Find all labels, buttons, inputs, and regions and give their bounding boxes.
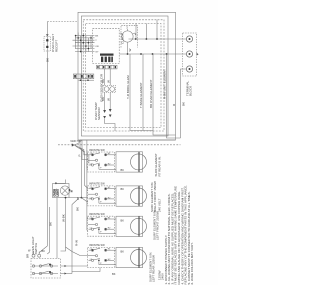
stub wires above y39 bus	[135, 24, 137, 40]
ROW 3 infinite switch SW3	[88, 216, 115, 236]
svg-text:OR: OR	[95, 46, 99, 48]
svg-text:SWITCH: SWITCH	[34, 243, 38, 255]
wire: light bottom down	[61, 198, 66, 251]
drop wire BR	[153, 54, 176, 135]
svg-text:T BAKE ELEMENT: T BAKE ELEMENT	[139, 82, 143, 108]
svg-text:W: W	[106, 80, 110, 83]
bus vertical D (row2 feed)	[74, 145, 88, 189]
row4 link wires	[114, 249, 116, 251]
svg-text:Y: Y	[95, 40, 97, 42]
ROW 2 surface element	[116, 186, 147, 206]
bus vertical C	[86, 150, 88, 230]
row2 link wires	[114, 188, 116, 190]
bus wire y54 to terminal block	[119, 53, 186, 55]
matrix junction dots	[75, 35, 92, 53]
svg-text:BR: BR	[26, 253, 30, 258]
vertical wire x72	[72, 199, 100, 272]
plug pin 1	[46, 39, 48, 41]
drop wire R-BK	[167, 54, 181, 138]
wire: sensor to box bottom	[105, 119, 115, 131]
lug 2 arrow	[197, 53, 199, 56]
wire y39 to terminal block	[129, 38, 187, 40]
bus junction dots	[127, 38, 168, 55]
wire: light box to rocker	[56, 198, 58, 259]
svg-text:R-BK UNIT ELEMENT: R-BK UNIT ELEMENT	[162, 69, 166, 99]
svg-text:BLOCK: BLOCK	[189, 86, 193, 96]
rocker contacts row 2	[34, 273, 59, 275]
wire below terminal strip	[79, 79, 95, 81]
sensor plug circles	[103, 86, 116, 93]
plug pin 2	[46, 46, 48, 48]
svg-text:INFINITE SW: INFINITE SW	[89, 243, 105, 247]
diagonal feeds rows	[87, 189, 88, 192]
svg-text:BK: BK	[95, 36, 98, 38]
svg-text:BK: BK	[121, 187, 125, 191]
svg-text:RT REAR 8 IN.: RT REAR 8 IN.	[157, 156, 161, 176]
row1 link wires	[114, 154, 116, 156]
svg-text:INFINITE SW: INFINITE SW	[89, 212, 105, 216]
terminal block lug 2	[186, 51, 192, 57]
wire from terminal block L1 down right side	[181, 69, 187, 138]
wire right side inner	[80, 139, 176, 141]
svg-text:INFINITE SW: INFINITE SW	[89, 182, 105, 186]
bus vertical A (to oven light top)	[65, 180, 67, 184]
wire: left vertical feed BK	[39, 22, 47, 254]
rocker contacts row 1	[34, 265, 59, 267]
main top dashed separator	[58, 144, 181, 146]
svg-text:BK: BK	[42, 249, 46, 253]
matrix wire labels	[95, 36, 99, 54]
ROW 1 surface element	[116, 152, 147, 172]
console outer box	[78, 12, 176, 140]
svg-text:P: P	[77, 154, 81, 156]
svg-text:BK: BK	[121, 168, 125, 172]
clock edge connector pin row	[97, 65, 118, 69]
row3 link wires	[114, 218, 116, 220]
svg-text:BR OVEN ELEMENT: BR OVEN ELEMENT	[149, 79, 153, 108]
svg-text:BK: BK	[48, 222, 52, 226]
svg-text:R-W: R-W	[75, 240, 79, 246]
row4 feed diagonal	[66, 247, 89, 256]
wire: motor to bus	[127, 42, 129, 54]
svg-text:LEFT FRONT 2100W: LEFT FRONT 2100W	[155, 211, 159, 240]
ROW 4 infinite switch SW4	[88, 247, 115, 267]
svg-text:N: N	[71, 191, 73, 193]
TEXT LAYER	[26, 26, 195, 285]
svg-text:3: 3	[126, 26, 128, 30]
svg-text:6. WIRE COLORS MAY VARY.: 6. WIRE COLORS MAY VARY.	[190, 242, 194, 284]
clock IC block	[100, 54, 114, 63]
svg-text:SENSOR: SENSOR	[97, 106, 101, 120]
wire: light to row2	[69, 197, 88, 199]
lower terminal strip	[73, 74, 94, 79]
wires below sensor plug	[104, 93, 106, 111]
terminal block lug 1	[186, 36, 192, 42]
terminal block lug 3	[186, 66, 192, 72]
svg-text:BK: BK	[76, 207, 80, 211]
oven light rocker switch box (dashed)	[31, 259, 61, 279]
ROW 2 infinite switch SW2	[88, 186, 115, 206]
svg-text:OVEN SENSOR CIR: OVEN SENSOR CIR	[100, 73, 104, 102]
motor dashed enclosure	[121, 25, 137, 47]
svg-text:W: W	[128, 49, 132, 52]
svg-text:R: R	[172, 103, 176, 106]
svg-text:CLOCK: CLOCK	[120, 34, 124, 44]
row1 wire in	[80, 140, 89, 155]
svg-text:240 VOLT: 240 VOLT	[157, 198, 161, 212]
rocker top stubs	[32, 254, 35, 257]
fan wires from console bottom	[74, 140, 79, 145]
wires exiting rocker right	[61, 265, 89, 267]
notes block	[164, 185, 194, 285]
svg-text:2: 2	[135, 32, 137, 36]
drop wire Y-R	[130, 54, 153, 131]
console box 4 (dashed)	[86, 24, 161, 128]
clock dashed box	[93, 28, 120, 63]
svg-text:BK: BK	[45, 58, 49, 62]
svg-text:W-BK: W-BK	[61, 214, 65, 222]
oven light receptacle plug (dashed)	[44, 37, 51, 52]
wire: left feed from plug to console (dashed)	[47, 21, 78, 23]
svg-text:W: W	[76, 197, 80, 200]
svg-text:LIGHT: LIGHT	[55, 188, 59, 196]
svg-text:Y-R BROIL ELEM: Y-R BROIL ELEM	[126, 75, 130, 99]
svg-text:BK: BK	[121, 250, 125, 254]
console box 3 (dashed)	[83, 20, 164, 131]
svg-text:W: W	[106, 98, 110, 101]
svg-text:INFINITE SW: INFINITE SW	[89, 148, 105, 152]
timer motor circle	[122, 31, 133, 42]
svg-text:BK: BK	[182, 102, 186, 106]
svg-text:BK: BK	[121, 219, 125, 223]
oven light box	[53, 184, 70, 198]
clock wiring matrix verticals	[76, 33, 91, 52]
svg-text:RECEPT: RECEPT	[55, 40, 59, 52]
drop wire T	[142, 54, 144, 131]
ROW 1 infinite switch SW1	[88, 152, 115, 172]
clock wiring matrix rungs	[73, 36, 95, 52]
connector arrows	[103, 110, 106, 113]
ROW 3 surface element	[116, 216, 147, 236]
fan connector arrow	[72, 143, 75, 146]
wire: light return	[47, 207, 49, 254]
svg-text:BK: BK	[112, 272, 116, 276]
svg-text:MAIN TOP: MAIN TOP	[71, 140, 82, 143]
console box 2	[81, 16, 168, 136]
bus vertical B	[80, 150, 82, 198]
svg-text:GY: GY	[95, 52, 99, 54]
connector arrow on left wire	[46, 34, 49, 36]
rocker lower exit	[61, 273, 73, 275]
wire under row4	[71, 272, 73, 274]
oven sensor connector wires	[104, 69, 106, 86]
oven light lamp	[60, 186, 69, 195]
ROW 4 surface element	[116, 247, 147, 267]
terminal block dashed box	[183, 33, 197, 76]
junction dots mid	[65, 197, 83, 199]
svg-text:LEFT REAR 1250W: LEFT REAR 1250W	[152, 255, 156, 282]
motor terminal ticks	[127, 29, 129, 31]
